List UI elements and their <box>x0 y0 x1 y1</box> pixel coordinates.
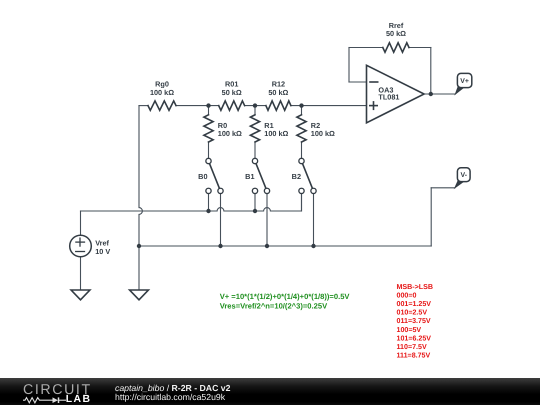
svg-text:110=7.5V: 110=7.5V <box>397 343 427 351</box>
svg-text:010=2.5V: 010=2.5V <box>397 309 428 317</box>
svg-text:B1: B1 <box>245 172 254 181</box>
svg-text:Vres=Vref/2^n=10/(2^3)=0.25V: Vres=Vref/2^n=10/(2^3)=0.25V <box>220 301 328 310</box>
svg-text:100 kΩ: 100 kΩ <box>218 129 242 138</box>
svg-text:V+: V+ <box>460 78 469 85</box>
svg-text:50 kΩ: 50 kΩ <box>386 29 406 38</box>
svg-text:V-: V- <box>461 172 468 179</box>
svg-text:V+ =10*(1*(1/2)+0*(1/4)+0*(1/8: V+ =10*(1*(1/2)+0*(1/4)+0*(1/8))=0.5V <box>220 292 351 301</box>
svg-text:B2: B2 <box>292 172 301 181</box>
svg-text:100 kΩ: 100 kΩ <box>150 88 174 97</box>
svg-text:100=5V: 100=5V <box>397 326 422 334</box>
svg-text:Vref: Vref <box>95 238 109 247</box>
svg-text:TL081: TL081 <box>378 93 399 102</box>
svg-text:100 kΩ: 100 kΩ <box>264 129 288 138</box>
svg-text:000=0: 000=0 <box>397 291 417 299</box>
svg-text:001=1.25V: 001=1.25V <box>397 300 432 308</box>
svg-text:10 V: 10 V <box>95 247 110 256</box>
svg-text:50 kΩ: 50 kΩ <box>268 88 288 97</box>
svg-text:100 kΩ: 100 kΩ <box>311 129 335 138</box>
svg-text:B0: B0 <box>198 172 207 181</box>
svg-text:011=3.75V: 011=3.75V <box>397 317 431 325</box>
svg-text:MSB->LSB: MSB->LSB <box>397 283 433 291</box>
svg-text:111=8.75V: 111=8.75V <box>397 352 431 360</box>
svg-text:101=6.25V: 101=6.25V <box>397 334 432 342</box>
svg-text:50 kΩ: 50 kΩ <box>222 88 242 97</box>
